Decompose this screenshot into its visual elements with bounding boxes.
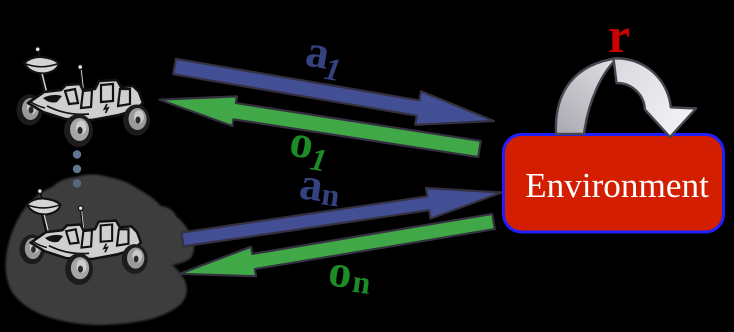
rover 2 — [20, 189, 148, 285]
Environment box — [504, 135, 724, 233]
rover 1 — [17, 47, 151, 147]
arrow a1 (blue) — [173, 59, 494, 125]
grey blob under second rover — [6, 175, 194, 326]
curved reward arrow: left crescent band — [556, 58, 618, 134]
arrow on (green) — [180, 214, 495, 276]
arrow an (blue) — [182, 188, 502, 246]
svg-text:Environment: Environment — [525, 166, 709, 205]
svg-text:r: r — [608, 7, 630, 63]
vertical dots — [73, 150, 81, 158]
curved reward arrow: right band with arrowhead — [614, 58, 697, 137]
arrow o1 (green) — [160, 96, 481, 157]
